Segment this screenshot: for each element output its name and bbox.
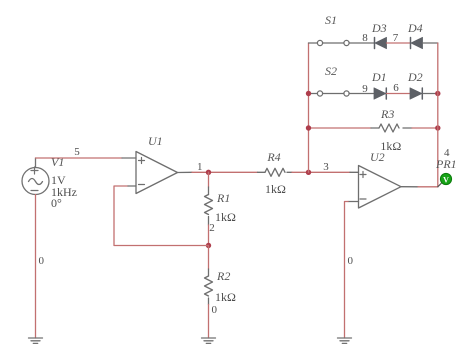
- junction node 2: [206, 243, 211, 248]
- ground (right): [338, 338, 352, 343]
- junction S2 left: [306, 91, 311, 96]
- svg-text:6: 6: [393, 82, 399, 94]
- resistor R1: [205, 187, 213, 225]
- svg-text:D1: D1: [371, 70, 387, 84]
- wire node 1 down to R1: [208, 172, 210, 187]
- diode D4: [411, 37, 423, 48]
- wire D2 to right vertical: [423, 93, 438, 95]
- svg-text:R2: R2: [216, 269, 230, 283]
- ground (middle): [202, 338, 216, 343]
- svg-text:R1: R1: [216, 191, 230, 205]
- wire R3 right: [412, 127, 438, 129]
- svg-text:V: V: [443, 176, 449, 185]
- svg-text:1kΩ: 1kΩ: [215, 290, 236, 304]
- ground (left): [29, 338, 43, 343]
- U2 output lead: [401, 186, 418, 188]
- svg-text:7: 7: [393, 32, 399, 44]
- wire node 4: U2 output to right vertical: [418, 186, 438, 188]
- junction D2 right: [435, 91, 440, 96]
- diode D1: [374, 88, 386, 99]
- svg-text:U2: U2: [370, 150, 385, 164]
- svg-text:U1: U1: [148, 134, 163, 148]
- resistor R4: [258, 168, 293, 176]
- wire R3 left: [309, 127, 372, 129]
- left vertical wire node 3 up to switches: [308, 43, 310, 172]
- diode D2: [410, 88, 422, 99]
- svg-text:5: 5: [74, 146, 80, 158]
- svg-text:0: 0: [348, 255, 354, 267]
- svg-text:0°: 0°: [51, 196, 62, 210]
- wire node 6 between D1 and D2: [387, 93, 411, 95]
- U1 minus input lead: [128, 185, 136, 187]
- junction R3 left: [306, 125, 311, 130]
- svg-text:1kΩ: 1kΩ: [265, 182, 286, 196]
- switch S2: [309, 91, 374, 96]
- svg-text:1: 1: [197, 161, 203, 173]
- resistor R3: [371, 124, 412, 132]
- diode D3: [375, 37, 387, 48]
- voltage source V1: [22, 167, 49, 195]
- svg-text:R3: R3: [380, 107, 394, 121]
- junction R3 right: [435, 125, 440, 130]
- svg-text:9: 9: [362, 83, 368, 95]
- svg-text:PR1: PR1: [435, 157, 457, 171]
- U2 minus input lead: [348, 201, 359, 203]
- svg-text:D4: D4: [407, 21, 423, 35]
- svg-text:2: 2: [209, 222, 215, 234]
- wire V1 bottom to ground, node 0: [35, 195, 37, 339]
- wire node 5 from V1 top to U1 + input: [36, 158, 137, 168]
- svg-text:R4: R4: [266, 150, 280, 164]
- op-amp U2: [359, 166, 402, 209]
- wire R2 bottom to ground: [208, 305, 210, 339]
- wire node 7 between D3 and D4: [387, 42, 411, 44]
- right vertical wire: [437, 43, 439, 187]
- svg-text:3: 3: [323, 161, 329, 173]
- svg-text:0: 0: [212, 304, 218, 316]
- wire D4 to right vertical: [423, 42, 438, 44]
- svg-text:D3: D3: [371, 21, 387, 35]
- svg-text:V1: V1: [51, 155, 64, 169]
- U1 output lead: [178, 171, 193, 173]
- resistor R2: [205, 269, 213, 305]
- wire node 2 down to R2: [208, 246, 210, 270]
- wire R1 bottom to node 2: [208, 225, 210, 246]
- junction node 1: [206, 170, 211, 175]
- wire U2 minus to ground: [345, 202, 349, 339]
- svg-text:1kΩ: 1kΩ: [215, 210, 236, 224]
- feedback wire node 2 to U1 - input: [114, 186, 209, 246]
- svg-text:D2: D2: [407, 70, 423, 84]
- svg-text:S2: S2: [325, 64, 337, 78]
- probe PR1: [438, 173, 452, 186]
- op-amp U1: [136, 152, 178, 194]
- svg-text:0: 0: [39, 255, 45, 267]
- svg-text:8: 8: [362, 32, 368, 44]
- junction node 3: [306, 170, 311, 175]
- wire node 3: R4 to U2 + input: [292, 171, 350, 173]
- wire node 1: U1 output to R4: [192, 171, 258, 173]
- U2 plus input lead: [350, 171, 359, 173]
- switch S1: [309, 40, 375, 45]
- svg-text:S1: S1: [325, 13, 337, 27]
